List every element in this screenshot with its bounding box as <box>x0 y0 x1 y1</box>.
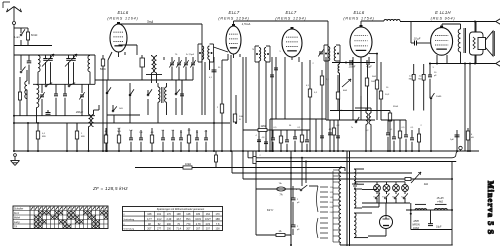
svg-text:MΩ: MΩ <box>418 78 422 80</box>
svg-text:Verbindung: Verbindung <box>124 228 135 231</box>
svg-text:(RENS 1294): (RENS 1294) <box>275 17 306 21</box>
svg-text:100: 100 <box>216 228 221 231</box>
svg-text:1A: 1A <box>279 230 282 233</box>
svg-text:1µF: 1µF <box>450 139 454 141</box>
svg-text:200: 200 <box>167 228 172 231</box>
svg-text:4: 4 <box>296 189 297 191</box>
svg-text:4,8: 4,8 <box>262 137 265 139</box>
svg-text:kΩ: kΩ <box>471 137 474 139</box>
svg-text:104Ω: 104Ω <box>436 96 442 98</box>
svg-text:10µF: 10µF <box>436 226 442 229</box>
svg-text:Mittel: Mittel <box>14 217 20 220</box>
svg-text:2V0: 2V0 <box>206 223 211 226</box>
svg-text:1MΩ: 1MΩ <box>260 125 265 128</box>
svg-text:2: 2 <box>259 155 260 157</box>
svg-text:180: 180 <box>196 213 201 216</box>
svg-text:277: 277 <box>157 228 162 231</box>
svg-text:Verbindung: Verbindung <box>124 218 135 221</box>
svg-text:71,4: 71,4 <box>176 228 181 231</box>
svg-text:170: 170 <box>216 213 221 216</box>
svg-text:5kΩ: 5kΩ <box>372 76 376 78</box>
svg-text:Schalter: Schalter <box>14 208 23 211</box>
svg-text:ELL6: ELL6 <box>118 10 129 15</box>
svg-text:4kΩ: 4kΩ <box>424 184 428 186</box>
svg-text:MΩ: MΩ <box>42 136 46 138</box>
svg-text:Tk: Tk <box>392 197 394 199</box>
svg-text:161: 161 <box>157 213 162 216</box>
svg-text:63 V: 63 V <box>267 208 274 212</box>
svg-text:200: 200 <box>167 223 172 226</box>
svg-text:(RENS 1264): (RENS 1264) <box>107 17 138 21</box>
svg-text:10V7: 10V7 <box>205 218 211 221</box>
svg-text:4kΩ: 4kΩ <box>343 90 347 92</box>
svg-text:MΩ: MΩ <box>117 131 121 133</box>
svg-text:207: 207 <box>147 228 152 231</box>
svg-text:4: 4 <box>255 135 256 137</box>
svg-text:Kurz: Kurz <box>14 212 20 215</box>
svg-text:10V2: 10V2 <box>195 218 201 221</box>
svg-text:168: 168 <box>147 213 152 216</box>
svg-text:207: 207 <box>206 228 211 231</box>
svg-text:148: 148 <box>186 213 191 216</box>
svg-text:7,8: 7,8 <box>216 223 220 226</box>
svg-text:14,2: 14,2 <box>157 218 162 221</box>
svg-text:ZF = 128,5 kHz: ZF = 128,5 kHz <box>92 186 128 191</box>
svg-text:MΩ: MΩ <box>409 78 413 80</box>
svg-text:7A: 7A <box>279 193 282 197</box>
svg-text:51kΩ: 51kΩ <box>393 106 399 108</box>
svg-text:60 kΩ: 60 kΩ <box>31 34 38 37</box>
svg-text:170: 170 <box>167 213 172 216</box>
svg-text:ELL7: ELL7 <box>229 10 240 15</box>
svg-text:10 µF: 10 µF <box>414 37 421 41</box>
svg-text:18D: 18D <box>215 218 220 221</box>
svg-text:250µF: 250µF <box>348 67 356 69</box>
svg-text:200µF: 200µF <box>75 111 84 114</box>
svg-text:ELL6: ELL6 <box>354 10 365 15</box>
svg-text:8V1: 8V1 <box>186 218 191 221</box>
svg-text:500Ω: 500Ω <box>100 69 106 71</box>
svg-text:1,5mA: 1,5mA <box>242 22 251 26</box>
svg-text:1kΩ: 1kΩ <box>371 81 375 83</box>
svg-text:2,78: 2,78 <box>196 223 201 226</box>
svg-text:Lang: Lang <box>14 221 20 224</box>
svg-text:TA: TA <box>14 226 17 229</box>
svg-text:L ant: L ant <box>14 36 19 39</box>
svg-text:Spannungen mit Röhrenvoltmeter: Spannungen mit Röhrenvoltmeter gemessen <box>157 208 205 211</box>
svg-text:E LL1H: E LL1H <box>435 10 451 15</box>
svg-text:Tm: Tm <box>382 197 385 199</box>
svg-text:198: 198 <box>177 213 182 216</box>
svg-text:MΩ: MΩ <box>81 136 85 138</box>
svg-text:(RENS 1754): (RENS 1754) <box>343 17 374 21</box>
svg-text:770: 770 <box>186 223 191 226</box>
svg-text:3+7,5pF: 3+7,5pF <box>186 54 195 56</box>
svg-text:207: 207 <box>196 228 201 231</box>
svg-text:2,49: 2,49 <box>166 218 171 221</box>
svg-text:+4kΩ: +4kΩ <box>437 201 443 204</box>
svg-text:7mA: 7mA <box>147 20 154 24</box>
svg-text:(RENS 1294): (RENS 1294) <box>218 17 249 21</box>
svg-text:10kΩ: 10kΩ <box>185 162 191 166</box>
svg-text:164: 164 <box>206 213 211 216</box>
svg-text:Minerva 5 S: Minerva 5 S <box>486 181 495 235</box>
svg-text:207: 207 <box>186 228 191 231</box>
svg-text:4A7: 4A7 <box>176 218 181 221</box>
svg-text:4,77: 4,77 <box>147 218 152 221</box>
svg-text:ELL7: ELL7 <box>286 10 297 15</box>
svg-text:1kΩ: 1kΩ <box>119 108 123 110</box>
svg-text:(RES 964): (RES 964) <box>431 17 456 21</box>
